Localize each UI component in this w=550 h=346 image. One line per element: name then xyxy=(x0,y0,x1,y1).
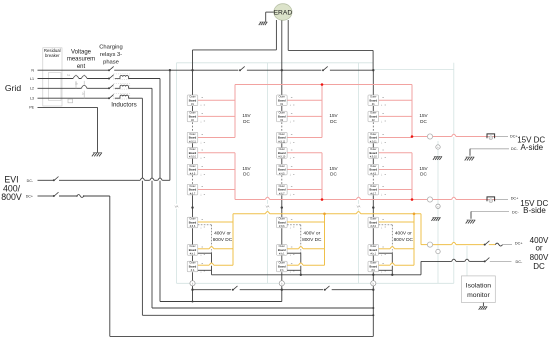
svg-text:L3: L3 xyxy=(30,97,34,101)
svg-text:15V: 15V xyxy=(242,166,251,171)
svg-text:Board: Board xyxy=(278,151,286,155)
svg-text:=: = xyxy=(291,148,293,152)
svg-text:Outer: Outer xyxy=(370,218,376,221)
svg-text:15V: 15V xyxy=(329,113,338,118)
svg-text:#,4,5: #,4,5 xyxy=(190,172,196,175)
svg-text:800V: 800V xyxy=(530,253,549,262)
svg-text:#,b,1: #,b,1 xyxy=(279,253,285,256)
svg-text:Outer: Outer xyxy=(189,148,195,151)
svg-text:Outer: Outer xyxy=(370,96,376,99)
svg-text:Outer: Outer xyxy=(279,133,285,136)
svg-text:Outer: Outer xyxy=(279,262,285,265)
svg-text:=: = xyxy=(201,112,203,116)
svg-text:A-side: A-side xyxy=(520,143,543,152)
svg-text:Board: Board xyxy=(278,115,286,119)
svg-text:Residual: Residual xyxy=(44,48,61,53)
svg-text:Board: Board xyxy=(370,168,378,172)
svg-text:Board: Board xyxy=(370,115,378,119)
svg-text:DC+: DC+ xyxy=(511,196,519,200)
svg-text:Outer: Outer xyxy=(189,245,195,248)
svg-text:#,8,6: #,8,6 xyxy=(371,225,377,228)
svg-text:Board: Board xyxy=(189,98,197,102)
svg-text:Board: Board xyxy=(370,136,378,140)
svg-text:ERAD: ERAD xyxy=(274,9,293,16)
svg-text:Board: Board xyxy=(278,188,286,192)
svg-text:Board: Board xyxy=(189,248,197,252)
svg-text:=: = xyxy=(382,148,384,152)
svg-text:DC: DC xyxy=(243,119,250,124)
svg-text:DC: DC xyxy=(330,119,337,124)
svg-text:Voltage: Voltage xyxy=(71,49,92,55)
svg-text:Board: Board xyxy=(370,188,378,192)
svg-text:Board: Board xyxy=(370,265,378,269)
svg-text:=: = xyxy=(382,218,384,222)
svg-text:=: = xyxy=(201,165,203,169)
svg-text:Inductors: Inductors xyxy=(111,101,136,108)
svg-text:#,b: #,b xyxy=(280,269,284,272)
svg-text:Outer: Outer xyxy=(370,133,376,136)
svg-text:Outer: Outer xyxy=(279,218,285,221)
svg-text:=: = xyxy=(382,165,384,169)
svg-text:#,8,6: #,8,6 xyxy=(190,225,196,228)
svg-text:PE: PE xyxy=(29,106,34,110)
svg-text:=: = xyxy=(201,133,203,137)
svg-text:DC+: DC+ xyxy=(515,241,523,245)
svg-text:Outer: Outer xyxy=(279,96,285,99)
svg-text:Board: Board xyxy=(189,221,197,225)
svg-text:ent: ent xyxy=(77,64,86,70)
svg-text:=: = xyxy=(291,133,293,137)
svg-text:#,b: #,b xyxy=(191,269,195,272)
svg-text:or: or xyxy=(535,243,542,252)
svg-text:Grid: Grid xyxy=(5,83,21,93)
svg-text:Outer: Outer xyxy=(189,165,195,168)
svg-text:#,9,10: #,9,10 xyxy=(370,156,378,159)
svg-text:measurem: measurem xyxy=(67,57,95,63)
svg-text:800V: 800V xyxy=(1,192,22,202)
svg-text:VA: VA xyxy=(175,205,179,209)
svg-text:800V DC: 800V DC xyxy=(394,237,414,243)
svg-text:DC: DC xyxy=(533,262,545,271)
svg-text:DC-: DC- xyxy=(511,147,518,151)
svg-text:Board: Board xyxy=(189,151,197,155)
svg-text:Board: Board xyxy=(189,136,197,140)
svg-text:DC-: DC- xyxy=(27,179,34,183)
svg-text:800V DC: 800V DC xyxy=(213,237,233,243)
svg-text:DC: DC xyxy=(420,119,427,124)
svg-text:#,9,10: #,9,10 xyxy=(189,156,197,159)
svg-text:#,b,1: #,b,1 xyxy=(190,253,196,256)
svg-text:DC+: DC+ xyxy=(26,195,33,199)
svg-text:=: = xyxy=(382,112,384,116)
svg-text:Outer: Outer xyxy=(279,165,285,168)
svg-text:Outer: Outer xyxy=(189,96,195,99)
svg-text:#,6,7: #,6,7 xyxy=(279,192,285,195)
svg-text:#,4,5: #,4,5 xyxy=(279,172,285,175)
svg-text:VA: VA xyxy=(266,205,270,209)
svg-text:#,b: #,b xyxy=(372,269,376,272)
svg-text:=: = xyxy=(382,133,384,137)
svg-text:L1: L1 xyxy=(30,77,34,81)
svg-text:#,6,7: #,6,7 xyxy=(190,192,196,195)
svg-text:#,9,10: #,9,10 xyxy=(278,156,286,159)
svg-text:Board: Board xyxy=(189,188,197,192)
svg-text:Board: Board xyxy=(278,136,286,140)
svg-text:400V or: 400V or xyxy=(303,230,320,236)
svg-text:=: = xyxy=(291,165,293,169)
svg-text:DC: DC xyxy=(243,172,250,177)
svg-text:Board: Board xyxy=(278,221,286,225)
svg-text:Outer: Outer xyxy=(370,185,376,188)
svg-text:#,9,11: #,9,11 xyxy=(370,140,377,143)
svg-text:#,9,11: #,9,11 xyxy=(278,140,285,143)
svg-text:Board: Board xyxy=(370,151,378,155)
svg-text:=: = xyxy=(291,218,293,222)
svg-text:Outer: Outer xyxy=(279,148,285,151)
svg-text:15V: 15V xyxy=(242,113,251,118)
svg-text:B-side: B-side xyxy=(523,206,546,215)
svg-text:DC: DC xyxy=(330,172,337,177)
svg-text:=: = xyxy=(382,185,384,189)
svg-text:=: = xyxy=(201,148,203,152)
svg-text:15V: 15V xyxy=(329,166,338,171)
svg-text:Outer: Outer xyxy=(370,148,376,151)
svg-text:Board: Board xyxy=(370,221,378,225)
svg-text:Board: Board xyxy=(189,115,197,119)
svg-text:=: = xyxy=(201,95,203,99)
svg-text:=: = xyxy=(291,95,293,99)
svg-text:Board: Board xyxy=(278,168,286,172)
svg-text:Outer: Outer xyxy=(370,165,376,168)
svg-text:400V or: 400V or xyxy=(214,230,231,236)
svg-text:=: = xyxy=(291,185,293,189)
svg-text:Outer: Outer xyxy=(189,218,195,221)
svg-text:#,8,6: #,8,6 xyxy=(279,225,285,228)
svg-text:Outer: Outer xyxy=(279,112,285,115)
svg-text:=: = xyxy=(291,112,293,116)
svg-text:Outer: Outer xyxy=(370,245,376,248)
svg-text:DC-: DC- xyxy=(512,210,519,214)
svg-text:800V DC: 800V DC xyxy=(302,237,322,243)
svg-text:VA: VA xyxy=(357,205,361,209)
svg-text:Board: Board xyxy=(278,265,286,269)
svg-text:Outer: Outer xyxy=(370,112,376,115)
svg-text:=: = xyxy=(201,185,203,189)
svg-text:L2: L2 xyxy=(30,87,34,91)
svg-text:Board: Board xyxy=(370,98,378,102)
svg-text:Outer: Outer xyxy=(279,245,285,248)
svg-text:Board: Board xyxy=(278,98,286,102)
svg-text:monitor: monitor xyxy=(467,292,490,299)
svg-text:Outer: Outer xyxy=(189,185,195,188)
svg-text:=: = xyxy=(382,95,384,99)
svg-text:relays 3-: relays 3- xyxy=(100,52,122,58)
svg-text:15V: 15V xyxy=(419,113,428,118)
svg-text:phase: phase xyxy=(103,60,119,66)
svg-text:Outer: Outer xyxy=(189,133,195,136)
svg-text:Board: Board xyxy=(189,265,197,269)
svg-text:#,4,5: #,4,5 xyxy=(371,172,377,175)
svg-text:Charging: Charging xyxy=(99,45,123,51)
svg-text:#,b,1: #,b,1 xyxy=(371,253,377,256)
svg-text:Outer: Outer xyxy=(189,262,195,265)
svg-text:DC-: DC- xyxy=(516,260,523,264)
svg-text:=: = xyxy=(201,218,203,222)
svg-text:#,6,7: #,6,7 xyxy=(371,192,377,195)
svg-text:N: N xyxy=(31,69,34,73)
svg-text:Board: Board xyxy=(370,248,378,252)
svg-text:Outer: Outer xyxy=(370,262,376,265)
svg-text:15V: 15V xyxy=(419,166,428,171)
svg-text:Board: Board xyxy=(189,168,197,172)
svg-text:Outer: Outer xyxy=(279,185,285,188)
svg-text:DC: DC xyxy=(420,172,427,177)
svg-text:#,9,11: #,9,11 xyxy=(189,140,196,143)
svg-text:Board: Board xyxy=(278,248,286,252)
svg-text:breaker: breaker xyxy=(45,53,60,58)
svg-text:400V or: 400V or xyxy=(395,230,412,236)
svg-text:Isolation: Isolation xyxy=(466,282,492,289)
svg-text:Outer: Outer xyxy=(189,112,195,115)
